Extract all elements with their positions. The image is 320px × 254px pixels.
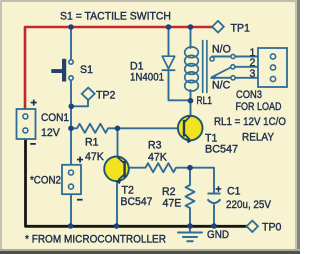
svg-text:*CON2: *CON2 (30, 175, 61, 187)
svg-text:CON1: CON1 (41, 112, 69, 124)
svg-text:* FROM MICROCONTROLLER: * FROM MICROCONTROLLER (25, 233, 166, 245)
svg-text:TP0: TP0 (262, 221, 282, 233)
svg-text:BC547: BC547 (121, 196, 153, 208)
svg-text:3: 3 (250, 68, 256, 80)
svg-text:S1: S1 (80, 64, 93, 76)
svg-text:BC547: BC547 (205, 144, 238, 156)
svg-text:CON3: CON3 (236, 89, 262, 101)
svg-text:TP1: TP1 (231, 22, 251, 34)
svg-text:S1 = TACTILE SWITCH: S1 = TACTILE SWITCH (60, 11, 171, 23)
svg-text:TP2: TP2 (96, 90, 116, 102)
svg-text:12V: 12V (41, 127, 61, 139)
svg-text:C1: C1 (227, 186, 241, 198)
svg-text:RL1: RL1 (197, 95, 213, 107)
svg-text:47K: 47K (85, 151, 104, 163)
svg-text:T2: T2 (122, 185, 134, 197)
svg-text:47E: 47E (163, 197, 182, 209)
svg-text:RL1 = 12V 1C/O: RL1 = 12V 1C/O (214, 116, 286, 128)
svg-text:RELAY: RELAY (242, 132, 274, 144)
svg-text:R2: R2 (162, 186, 176, 198)
svg-text:220u, 25V: 220u, 25V (226, 199, 272, 211)
svg-text:GND: GND (207, 229, 229, 241)
svg-text:1N4001: 1N4001 (130, 72, 164, 84)
svg-text:R3: R3 (148, 140, 162, 152)
svg-text:FOR LOAD: FOR LOAD (236, 101, 282, 113)
svg-text:N/O: N/O (212, 44, 231, 56)
svg-text:R1: R1 (85, 137, 99, 149)
svg-text:47K: 47K (148, 152, 167, 164)
svg-text:N/C: N/C (212, 80, 231, 92)
